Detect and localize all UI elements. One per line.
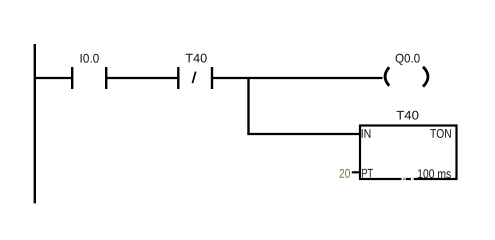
wire: contact T40 to coil Q0.0 bbox=[213, 77, 383, 79]
label I0.0 bbox=[81, 54, 99, 63]
wire: branch vertical drop at junction bbox=[247, 77, 249, 134]
wire: branch horizontal to timer IN pin bbox=[247, 133, 360, 135]
contact I0.0 left bar bbox=[71, 67, 73, 89]
bottom border light notches under 100 ms (as in source) bbox=[402, 178, 406, 181]
label Q0.0 bbox=[396, 54, 420, 65]
contact T40 right bar bbox=[211, 67, 213, 89]
timebase label 100 ms bbox=[418, 169, 451, 178]
wire: contact I0.0 to contact T40 bbox=[107, 77, 178, 79]
contact T40 left bar bbox=[177, 67, 179, 89]
contact I0.0 right bar bbox=[105, 67, 107, 89]
label T40 (contact) bbox=[186, 54, 207, 63]
wire: rail to contact I0.0 bbox=[34, 77, 72, 79]
coil Q0.0 left arc bbox=[385, 67, 389, 86]
pin label IN bbox=[362, 129, 371, 138]
coil Q0.0 right arc bbox=[423, 67, 428, 87]
preset value 20 bbox=[340, 169, 351, 178]
pin label PT bbox=[362, 169, 373, 178]
type label TON bbox=[430, 129, 451, 138]
left power rail bbox=[34, 44, 36, 203]
PT pin stub from preset 20 bbox=[352, 171, 360, 173]
NC contact slash bbox=[192, 72, 195, 84]
timer box T40 (TON) bbox=[360, 126, 457, 180]
timer name label T40 bbox=[397, 111, 419, 120]
